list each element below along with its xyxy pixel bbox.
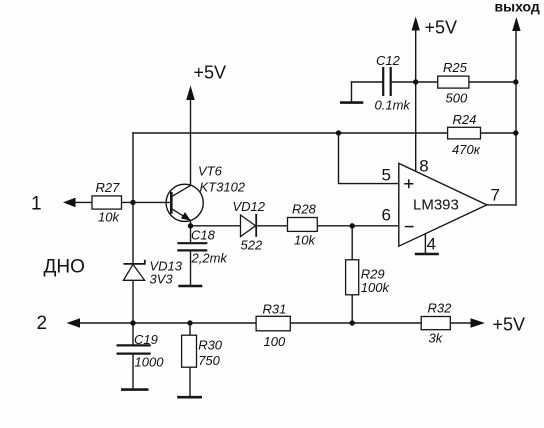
zener diode VD13 bbox=[123, 259, 182, 287]
wire left rail x=133 top segment bbox=[132, 133, 134, 264]
wire R29 bottom lead bbox=[351, 295, 353, 323]
wire left rail x=133 below VD13 bbox=[132, 280, 134, 323]
svg-text:500: 500 bbox=[446, 91, 468, 106]
svg-text:750: 750 bbox=[198, 353, 220, 368]
wire VD12 to R28 bbox=[256, 225, 287, 227]
svg-text:10k: 10k bbox=[294, 233, 316, 248]
svg-text:1000: 1000 bbox=[135, 355, 165, 370]
svg-text:+5V: +5V bbox=[194, 63, 227, 83]
wire top rail y=82 C12 ground to left plate bbox=[352, 81, 384, 83]
svg-text:R30: R30 bbox=[198, 338, 223, 353]
ground bar for C19 bbox=[121, 388, 149, 391]
svg-text:470к: 470к bbox=[452, 142, 481, 157]
resistor R29 bbox=[346, 260, 391, 295]
wire +5V rail to op-amp pin 8 bbox=[415, 23, 417, 171]
node junction dot R25/output rail bbox=[513, 79, 518, 84]
wire R30 bottom lead to ground bbox=[189, 367, 191, 396]
svg-text:ДНО: ДНО bbox=[44, 257, 85, 278]
svg-text:4: 4 bbox=[427, 235, 436, 254]
svg-text:522: 522 bbox=[241, 238, 263, 253]
wire C19 top lead bbox=[132, 323, 134, 344]
node junction dot R29 bottom bbox=[350, 320, 355, 325]
svg-text:3k: 3k bbox=[429, 331, 444, 346]
wire R24 right to output rail bbox=[481, 132, 517, 134]
wire R31 to R32 bbox=[290, 322, 421, 324]
wire R25 right to output rail bbox=[469, 81, 516, 83]
ground bar for C12 bbox=[340, 101, 363, 104]
diode VD12 bbox=[233, 199, 266, 253]
terminal arrow output (top right) bbox=[512, 17, 520, 31]
node junction dot R24/output rail bbox=[513, 130, 518, 135]
svg-text:VT6: VT6 bbox=[198, 164, 223, 179]
wire terminal 2 to R31 bbox=[73, 322, 256, 324]
node junction dot base/left rail bbox=[130, 200, 135, 205]
resistor R30 bbox=[182, 335, 223, 368]
svg-text:8: 8 bbox=[419, 157, 428, 176]
terminal arrow +5V (right of R32) bbox=[471, 318, 486, 328]
op-amp U1 LM393 bbox=[382, 157, 500, 254]
wire emitter lead bbox=[190, 221, 192, 226]
wire mid horizontal y=133 left rail to R24 bbox=[133, 132, 448, 134]
capacitor C19 bbox=[117, 332, 165, 370]
node junction dot emitter bbox=[188, 223, 193, 228]
ground bar for C18 bbox=[178, 285, 202, 288]
svg-text:выход: выход bbox=[495, 0, 540, 15]
capacitor C12 bbox=[375, 53, 412, 113]
terminal arrow +5V (top middle) bbox=[412, 17, 420, 31]
svg-text:R27: R27 bbox=[96, 180, 121, 195]
wire op-amp pin 4 lead bbox=[424, 234, 426, 253]
node junction dot R30 top bbox=[187, 320, 192, 325]
wire R27 to transistor base bbox=[122, 201, 171, 203]
svg-text:100k: 100k bbox=[361, 280, 391, 295]
wire pin 7 horizontal bbox=[487, 204, 516, 206]
wire output rail to pin 7 bbox=[515, 24, 517, 205]
wire R32 to +5V arrow bbox=[450, 322, 472, 324]
svg-text:7: 7 bbox=[491, 186, 500, 205]
resistor R24 bbox=[448, 112, 481, 157]
svg-text:C19: C19 bbox=[134, 332, 158, 347]
node junction dot R29 top bbox=[350, 223, 355, 228]
transistor Q VT6 bbox=[166, 164, 246, 222]
wire C12 ground lead bbox=[351, 82, 353, 101]
svg-text:+5V: +5V bbox=[425, 18, 458, 38]
svg-text:KT3102: KT3102 bbox=[200, 180, 246, 195]
resistor R25 bbox=[438, 60, 469, 106]
wire C19 bottom lead to ground bbox=[132, 355, 134, 389]
resistor R31 bbox=[256, 302, 290, 349]
svg-text:C18: C18 bbox=[191, 228, 216, 243]
ground bar for R30 bbox=[177, 396, 202, 399]
node junction dot C12/+5V rail bbox=[413, 79, 418, 84]
wire collector rail from +5V arrow bbox=[190, 92, 192, 185]
svg-text:3V3: 3V3 bbox=[150, 272, 174, 287]
svg-text:R24: R24 bbox=[453, 112, 477, 127]
svg-text:LM393: LM393 bbox=[413, 197, 459, 214]
node junction dot left rail bottom bbox=[130, 320, 135, 325]
svg-text:100: 100 bbox=[264, 334, 286, 349]
svg-text:C12: C12 bbox=[376, 53, 401, 68]
wire emitter junction to VD12 bbox=[191, 225, 241, 227]
ground bar for op-amp pin 4 bbox=[415, 253, 439, 256]
svg-text:+5V: +5V bbox=[493, 315, 526, 335]
svg-text:R28: R28 bbox=[292, 202, 317, 217]
wire R29 top lead bbox=[351, 226, 353, 260]
svg-text:1: 1 bbox=[31, 194, 42, 215]
wire C18 bottom lead to ground bbox=[190, 251, 192, 284]
capacitor C18 bbox=[177, 228, 228, 266]
terminal arrow 1 (left) bbox=[63, 198, 76, 208]
wire terminal 1 to R27 bbox=[70, 201, 92, 203]
svg-text:2,2mk: 2,2mk bbox=[191, 251, 229, 266]
resistor R27 bbox=[92, 180, 122, 225]
resistor R32 bbox=[421, 301, 452, 346]
terminal arrow +5V (above collector) bbox=[186, 86, 195, 101]
svg-text:R32: R32 bbox=[428, 301, 453, 316]
node junction dot pin5 branch bbox=[336, 130, 341, 135]
svg-text:2: 2 bbox=[37, 313, 48, 334]
svg-text:R31: R31 bbox=[263, 302, 287, 317]
svg-text:6: 6 bbox=[382, 206, 391, 225]
resistor R28 bbox=[288, 202, 318, 248]
svg-text:5: 5 bbox=[382, 166, 391, 185]
wire C18 top lead bbox=[190, 226, 192, 242]
svg-text:10k: 10k bbox=[98, 210, 120, 225]
wire R28 to op-amp pin 6 bbox=[317, 225, 399, 227]
wire C12 right plate to +5V rail bbox=[391, 81, 438, 83]
svg-text:R25: R25 bbox=[443, 60, 468, 75]
wire R30 top lead bbox=[189, 323, 191, 335]
svg-text:VD12: VD12 bbox=[233, 199, 266, 214]
svg-text:0.1mk: 0.1mk bbox=[375, 98, 412, 113]
wire pin 5 branch bbox=[339, 133, 399, 184]
terminal arrow 2 (left) bbox=[67, 318, 81, 328]
